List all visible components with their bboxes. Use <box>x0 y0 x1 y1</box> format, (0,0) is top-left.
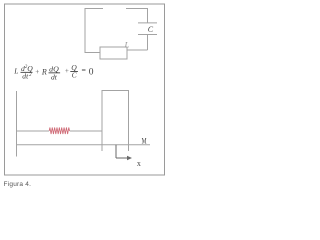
svg-text:Figura 4.: Figura 4. <box>4 181 32 188</box>
svg-text:+: + <box>65 67 69 75</box>
wire spring line right <box>70 130 102 132</box>
wire spring line left <box>16 130 49 132</box>
capacitor C bottom plate <box>138 34 157 36</box>
svg-text:dt: dt <box>22 71 29 80</box>
equation L d2Q/dt2 + R dQ/dt + Q/C = 0 <box>13 63 94 81</box>
svg-text:R: R <box>41 67 47 76</box>
svg-text:+: + <box>35 68 39 76</box>
wire top right segment <box>126 8 148 10</box>
wire top left segment <box>85 8 103 10</box>
svg-text:C: C <box>148 25 154 34</box>
svg-text:x: x <box>137 159 141 168</box>
ground line <box>16 144 150 146</box>
label M <box>142 138 147 146</box>
wire left vertical <box>84 8 86 53</box>
caption Figura 4 <box>4 181 32 188</box>
label C <box>148 25 154 34</box>
wire capacitor upper lead <box>147 8 149 23</box>
svg-text:0: 0 <box>89 68 94 78</box>
capacitor C top plate <box>138 22 157 24</box>
wire bottom right <box>127 49 148 51</box>
mass M box <box>102 91 129 152</box>
x axis arrow <box>116 145 132 161</box>
wire bottom left <box>85 52 100 54</box>
wire capacitor lower lead <box>147 35 149 51</box>
svg-text:L: L <box>13 67 18 76</box>
label L <box>124 40 130 50</box>
label x <box>137 159 141 168</box>
inductor L box <box>100 47 127 59</box>
spring <box>49 127 69 134</box>
svg-text:dt: dt <box>51 72 58 81</box>
svg-text:M: M <box>142 138 147 146</box>
wall <box>16 91 18 157</box>
svg-text:L: L <box>124 40 130 50</box>
